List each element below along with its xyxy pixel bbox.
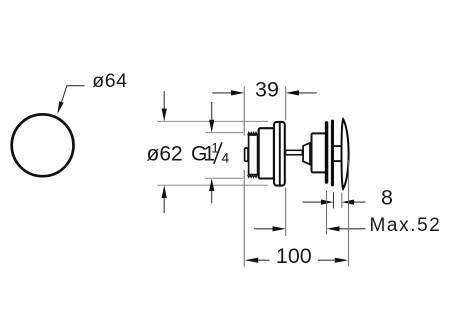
valve: body (259, 128, 274, 178)
valve: cap skirt rim bar (331, 120, 334, 187)
valve: flange (274, 122, 285, 186)
circle (ø64 plug face view) (12, 114, 74, 176)
svg-text:8: 8 (381, 186, 393, 210)
dim 100: right extension line (348, 160, 350, 267)
valve: cap skirt front bar (325, 121, 329, 183)
dim ø62: top arrow (163, 91, 165, 109)
svg-text:39: 39 (255, 77, 279, 101)
dim Max.52: left arrow (254, 228, 273, 230)
leader arrowhead (57, 101, 63, 114)
valve: hub rungs (334, 145, 342, 147)
dim G1 1/4: top arrow (211, 102, 213, 120)
svg-text:Max.52: Max.52 (370, 215, 442, 236)
dim 100: dimension line with inward arrows (245, 258, 259, 263)
dim 39: left tail + arrow (212, 92, 231, 94)
dim 39: right tail + arrow (299, 92, 317, 94)
valve: stem (286, 150, 303, 155)
thread serration bottom (248, 175, 258, 178)
svg-text:100: 100 (276, 244, 312, 268)
dim Max.52: extension line at cap (326, 191, 328, 235)
dim G1 1/4: top extension line (205, 132, 243, 134)
dim 39: left extension line (x=244.2) (243, 86, 245, 266)
dim G1 1/4: bottom extension line (205, 177, 243, 179)
dim ø62: bottom arrow (163, 198, 165, 213)
leader line ø64 (61, 86, 85, 104)
svg-text:4: 4 (222, 151, 230, 166)
valve: thread G1 1/4 with serrations (249, 135, 258, 175)
dim ø62: top extension line (157, 120, 268, 122)
dim 8: right arrow (354, 201, 365, 203)
valve: cone (303, 143, 310, 165)
dim 8: left arrow (303, 201, 322, 203)
valve: holder cylinder (312, 133, 327, 172)
dim 39: right extension line (x=285.7) (285, 86, 287, 236)
flange inner line (279, 122, 281, 186)
svg-text:ø62: ø62 (147, 142, 183, 165)
valve: dome cap lens (342, 119, 349, 189)
dim Max.52: right arrow (340, 228, 366, 230)
valve: nub (waste stub) (245, 148, 248, 161)
dim 8: extension lines (333, 192, 335, 208)
thread serration top (248, 132, 258, 135)
svg-text:ø64: ø64 (92, 70, 127, 92)
dim ø62: bottom extension line (157, 184, 268, 186)
dim G1 1/4: bottom arrow (211, 191, 213, 203)
